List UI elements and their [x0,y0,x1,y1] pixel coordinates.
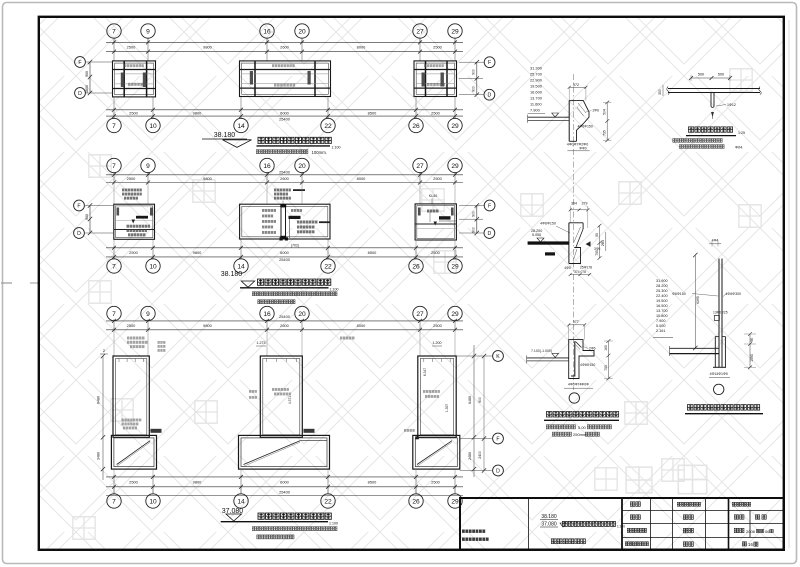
svg-text:38.180: 38.180 [221,271,243,278]
svg-text:2500: 2500 [129,250,138,255]
plan box B3 strip2 [415,204,456,240]
svg-text:9800: 9800 [193,110,202,115]
svg-text:20: 20 [298,28,306,35]
svg-text:14: 14 [237,263,245,270]
svg-text:1:100: 1:100 [329,522,338,526]
detail1 wall + haunch [569,100,577,102]
grid bubbles bottom row strip3 [113,487,115,494]
svg-text:7.900: 7.900 [656,319,666,323]
notes strip3 [252,527,337,531]
svg-text:28.200: 28.200 [656,284,668,288]
svg-text:2500: 2500 [433,176,442,181]
svg-text:38.180: 38.180 [214,132,236,139]
svg-text:2Φ5: 2Φ5 [601,240,605,246]
svg-text:95: 95 [595,233,599,237]
svg-text:2Φ6: 2Φ6 [589,347,596,351]
detail3 right dims [607,341,609,379]
svg-text:ΦΦ0: ΦΦ0 [579,147,586,151]
svg-text:6000: 6000 [280,110,289,115]
svg-text:9800: 9800 [203,176,212,181]
svg-text:25400: 25400 [279,490,291,495]
svg-text:1.200: 1.200 [433,341,442,345]
T-detail title [688,127,732,132]
svg-text:900: 900 [85,214,89,220]
svg-text:20: 20 [298,163,306,170]
svg-text:5.000: 5.000 [532,233,541,237]
svg-text:Φ8Φ150: Φ8Φ150 [672,292,686,296]
svg-text:25400: 25400 [279,170,291,175]
svg-text:37.080: 37.080 [541,522,557,528]
svg-text:F: F [496,436,499,442]
svg-text:2500: 2500 [433,45,442,50]
svg-text:(702): (702) [291,244,299,248]
svg-text:27: 27 [416,163,424,170]
svg-text:27: 27 [416,311,424,318]
tall plan M strip3 [260,356,302,437]
title block verticals [528,498,530,550]
left dim chain strip3 [102,356,104,480]
svg-text:20: 20 [298,311,306,318]
svg-text:1.273: 1.273 [257,341,266,345]
svg-text:4Φ6Φ150: 4Φ6Φ150 [540,222,556,226]
T-detail dim [691,77,730,79]
svg-text:4Φ4: 4Φ4 [712,239,719,243]
svg-text:4Φ0: 4Φ0 [564,266,571,270]
plan box B1 strip2 [114,204,155,239]
svg-text:26: 26 [412,263,420,270]
F/D bubbles right strip1 [484,57,495,68]
svg-text:5.00: 5.00 [578,425,587,430]
svg-text:29: 29 [451,28,459,35]
center line details [573,74,575,390]
svg-text:Φ04.: Φ04. [735,145,743,149]
svg-text:25400: 25400 [279,314,291,319]
svg-text:14: 14 [237,498,245,505]
svg-text:8000: 8000 [357,45,366,50]
svg-text:160: 160 [604,345,608,351]
svg-text:2600: 2600 [280,176,289,181]
svg-text:27: 27 [416,28,424,35]
svg-text:2500: 2500 [129,479,138,484]
detail3 bubble [569,393,579,403]
svg-text:900: 900 [85,71,89,77]
svg-text:13.700: 13.700 [530,96,543,101]
mid column title [546,411,618,417]
F/D bubbles right strip2 [484,200,495,211]
svg-text:6480: 6480 [97,396,101,404]
table texts [630,502,640,506]
svg-text:F: F [488,203,491,209]
svg-text:4Φ0Φ74Φ0Φ: 4Φ0Φ74Φ0Φ [568,383,589,387]
svg-text:2500: 2500 [431,250,440,255]
svg-text:2008: 2008 [746,529,756,534]
bottom dim band strip2 [113,240,115,248]
svg-text:19.500: 19.500 [530,84,543,89]
grid stems to boxes strip1 [113,52,115,61]
svg-text:10: 10 [149,123,157,130]
svg-text:11.600: 11.600 [530,102,542,107]
svg-text:25400: 25400 [279,257,291,262]
column base line [713,366,726,368]
tall plan L strip3 [113,356,149,437]
column bubble [714,384,724,394]
detail2 slab bar [528,241,570,244]
svg-text:5.000: 5.000 [656,324,666,328]
detail1 right dims [606,102,608,140]
right dim chain strip3 [473,345,475,477]
svg-text:1:100: 1:100 [330,288,339,292]
grid bubbles bottom row strip1 [113,97,115,110]
svg-text:1800: 1800 [85,85,89,93]
svg-text:13Φ0 225: 13Φ0 225 [713,311,728,315]
top dim band strip1 [106,41,463,43]
widened column base [714,337,716,368]
svg-text:6000: 6000 [280,250,289,255]
title block main title [562,521,615,526]
svg-text:972: 972 [573,83,579,87]
plan box B1 strip1 [113,61,156,97]
svg-text:9: 9 [146,28,150,35]
svg-text:7.100(-1.000): 7.100(-1.000) [531,349,552,353]
svg-text:9800: 9800 [203,323,212,328]
svg-text:22: 22 [324,498,332,505]
svg-text:38.180: 38.180 [541,514,557,520]
svg-text:2.161: 2.161 [656,329,666,333]
svg-text:31.300: 31.300 [530,66,543,71]
svg-text:250mm: 250mm [573,432,587,437]
svg-text:16.500: 16.500 [656,304,668,308]
svg-text:2600: 2600 [280,323,289,328]
detail2 arrow [586,241,591,246]
svg-text:KL40: KL40 [429,194,437,198]
grid bubbles bottom row strip2 [113,257,115,259]
svg-text:7: 7 [112,123,116,130]
F/D bubbles left strip1 [75,57,86,68]
svg-text:D: D [496,468,500,474]
grid bubbles top row strip3 [107,306,121,320]
svg-text:16: 16 [263,28,271,35]
svg-text:10: 10 [149,263,157,270]
F/D bubbles left strip2 [74,200,85,211]
svg-text:4Φ6Φ150: 4Φ6Φ150 [578,125,593,129]
svg-text:4Φ6Φ300: 4Φ6Φ300 [725,292,741,296]
svg-text:3480: 3480 [97,452,101,460]
svg-text:31.900: 31.900 [656,279,668,283]
svg-text:4Φ14Φ1Φ9: 4Φ14Φ1Φ9 [710,372,728,376]
svg-text:900: 900 [471,86,475,92]
svg-text:16: 16 [263,311,271,318]
svg-text:9: 9 [146,311,150,318]
svg-text:2600: 2600 [280,45,289,50]
svg-text:26: 26 [412,498,420,505]
svg-text:7.900: 7.900 [530,108,541,113]
svg-text:22.900: 22.900 [530,78,543,83]
svg-text:6000: 6000 [280,479,289,484]
svg-text:6395: 6395 [696,296,700,304]
right column title [687,405,759,411]
svg-text:D: D [77,231,81,237]
svg-text:F: F [488,60,491,66]
svg-text:374 078: 374 078 [574,270,586,274]
svg-text:2500: 2500 [127,323,136,328]
svg-text:8500: 8500 [368,479,377,484]
svg-text:504: 504 [603,109,607,115]
title block rows [622,510,784,512]
svg-text:13.700: 13.700 [656,309,668,313]
detail3 rebar [571,341,575,376]
slab left [670,347,720,349]
svg-text:900: 900 [478,397,482,403]
svg-text:22.400: 22.400 [656,294,668,298]
plan box B3 strip1 [414,61,457,97]
svg-text:22: 22 [324,263,332,270]
svg-text:900: 900 [471,227,475,233]
svg-text:1593: 1593 [750,354,754,362]
svg-text:7: 7 [112,163,116,170]
svg-text:06: 06 [765,529,770,534]
svg-text:500: 500 [698,73,704,77]
svg-text:304: 304 [571,202,577,206]
svg-text:1:100: 1:100 [617,525,625,529]
svg-text:735: 735 [603,130,607,136]
svg-text:750: 750 [604,365,608,371]
step notch [714,315,719,320]
svg-text:4Φ6Φ150: 4Φ6Φ150 [580,363,595,367]
svg-text:7: 7 [112,311,116,318]
detail2 black tag [545,252,555,255]
svg-text:6480: 6480 [468,396,472,404]
svg-text:2Φ6: 2Φ6 [593,109,600,113]
svg-text:977: 977 [573,320,579,324]
svg-text:8500: 8500 [368,110,377,115]
mid column notes [546,425,575,429]
svg-text:29: 29 [451,311,459,318]
svg-text:900: 900 [471,211,475,217]
T-detail slab [668,88,760,90]
plan box B2 strip1 [240,61,331,97]
tall plan R strip3 [418,356,456,437]
svg-text:25.300: 25.300 [656,289,668,293]
svg-text:2500: 2500 [431,110,440,115]
T-detail notes [673,139,722,143]
watermark glyphs [73,69,761,539]
detail2 wall [568,223,570,264]
detail2 right dims [599,226,601,258]
svg-text:9800: 9800 [193,479,202,484]
detail2 wall step [569,248,581,264]
svg-text:1:25: 1:25 [738,131,745,135]
balcony L strip3 [111,435,156,469]
svg-text:2500: 2500 [129,110,138,115]
svg-text:7: 7 [112,498,116,505]
svg-text:10: 10 [149,498,157,505]
title block left texts [462,530,485,533]
svg-text:2500: 2500 [127,45,136,50]
svg-text:25.700: 25.700 [530,72,543,77]
detail3 slab [527,357,569,359]
svg-text:96: 96 [750,338,754,342]
svg-text:16.600: 16.600 [530,90,543,95]
svg-text:16: 16 [263,163,271,170]
svg-text:2500: 2500 [127,176,136,181]
svg-text:900: 900 [471,69,475,75]
detail3 wall outline [569,340,594,379]
svg-text:350: 350 [658,89,662,95]
watermark big text [595,465,707,493]
right dims column [749,334,751,367]
svg-text:9: 9 [146,163,150,170]
svg-text:F: F [77,203,80,209]
svg-text:29: 29 [451,163,459,170]
svg-text:26: 26 [412,123,420,130]
svg-text:279: 279 [582,202,588,206]
svg-text:F: F [78,60,81,66]
bottom dim band strip1 [106,109,463,111]
svg-text:8000: 8000 [357,323,366,328]
svg-text:2500: 2500 [431,479,440,484]
svg-text:19.500: 19.500 [656,299,668,303]
svg-text:29: 29 [451,263,459,270]
title block outer [460,498,784,550]
svg-text:1:100: 1:100 [332,146,341,150]
grid bubbles top row strip2 [107,158,121,172]
balcony R strip3 [413,435,460,469]
svg-text:9800: 9800 [193,250,202,255]
svg-text:22: 22 [324,123,332,130]
grid bubbles top row strip1 [107,24,121,38]
K/F/D bubbles strip3 [493,351,504,362]
svg-text:705: 705 [595,250,599,256]
plan box B2 strip2 [240,204,330,239]
svg-text:25400: 25400 [279,117,291,122]
balcony M strip3 [239,435,330,469]
svg-text:D: D [78,91,82,97]
detail1 slab [528,116,570,118]
svg-text:D: D [488,93,492,99]
svg-text:1.307: 1.307 [445,404,449,412]
leader notes above boxes strip2 [122,189,142,192]
svg-text:29: 29 [451,498,459,505]
svg-text:2480: 2480 [468,452,472,460]
svg-text:K: K [496,354,500,360]
column detail left dim [694,255,696,348]
bottom dim band strip3 [113,469,115,477]
svg-text:16: 16 [748,542,753,547]
svg-text:100mm.: 100mm. [312,150,328,155]
notes strip2 [252,292,337,296]
svg-text:2500: 2500 [433,323,442,328]
svg-text:7: 7 [112,28,116,35]
detail2 wall top [569,222,583,224]
T-detail rib [710,93,712,107]
svg-text:9800: 9800 [203,45,212,50]
svg-text:D: D [488,231,492,237]
svg-text:6.347: 6.347 [423,368,427,376]
svg-text:28.200: 28.200 [531,229,542,233]
svg-text:8500: 8500 [368,250,377,255]
svg-text:14: 14 [237,123,245,130]
svg-text:7: 7 [112,263,116,270]
column detail shaft [718,259,720,368]
svg-text:10.800: 10.800 [656,314,668,318]
leader notes strip3 [127,337,145,340]
svg-text:29: 29 [451,123,459,130]
svg-text:8000: 8000 [357,176,366,181]
svg-text:2400: 2400 [478,451,482,459]
note strip1 [256,150,308,154]
svg-text:500: 500 [718,73,724,77]
svg-text:4.371: 4.371 [288,396,292,404]
fold marks [1,282,12,284]
svg-text:1Φ12: 1Φ12 [727,103,736,107]
